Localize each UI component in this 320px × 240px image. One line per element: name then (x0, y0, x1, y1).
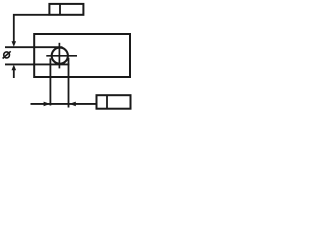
arrowhead right (bottom dim, at left tangent) (44, 102, 51, 107)
hole (circle) (52, 48, 68, 64)
bottom tolerance frame divider (106, 95, 108, 109)
extension line, top tangent of hole (5, 46, 63, 48)
part outline (plate) (34, 34, 130, 77)
top tolerance frame divider (59, 4, 61, 15)
background paper (0, 0, 136, 117)
extension line, right tangent of hole (to bottom dim) (68, 58, 70, 108)
arrowhead down (left dim, at top tangent) (12, 41, 17, 47)
dimension line lower segment (left diameter dim) (13, 69, 15, 79)
bottom tolerance frame box (97, 95, 131, 109)
leader line to top tolerance frame (14, 15, 49, 43)
arrowhead left (bottom dim, at right tangent) (69, 102, 76, 107)
extension line, bottom tangent of hole (5, 63, 69, 65)
bottom dimension line (31, 103, 96, 105)
vertical center line of hole (58, 43, 60, 69)
top tolerance frame box (49, 4, 83, 15)
arrowhead up (left dim, at bottom tangent) (12, 65, 17, 71)
horizontal center line of hole (46, 55, 77, 57)
diameter symbol (3, 51, 11, 58)
extension line, left tangent of hole (to bottom dim) (49, 58, 51, 105)
